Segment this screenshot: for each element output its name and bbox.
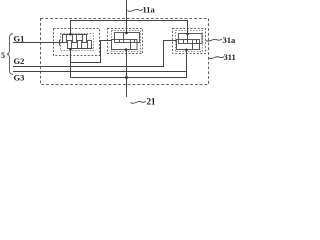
wire: bus B bottom with riser to cell 3 bottom — [71, 50, 187, 78]
curly brace for S group — [7, 34, 13, 75]
outer dashed box 311 — [41, 19, 209, 85]
cell 2 outer dashed box — [108, 29, 143, 54]
svg-text:311: 311 — [224, 52, 236, 62]
leader squiggle 21 — [131, 101, 147, 103]
cell 3 inner dashed box — [176, 31, 203, 52]
wire: cell1 bottom drop V1 — [70, 50, 72, 78]
node dot cell1 bottom — [69, 48, 72, 51]
svg-text:5: 5 — [1, 51, 5, 60]
node dot cell2 bottom — [125, 48, 128, 51]
svg-text:G1: G1 — [14, 34, 25, 44]
wire: G3 line — [13, 71, 187, 73]
transistor comb cell 2 — [112, 33, 140, 50]
svg-text:31a: 31a — [223, 35, 237, 45]
junction dot on bus B — [125, 76, 128, 79]
svg-text:21: 21 — [147, 97, 157, 107]
transistor comb cell 3 — [177, 34, 203, 50]
cell 3 outer dashed box 31a — [173, 29, 206, 54]
node dot cell1 top — [69, 33, 72, 36]
leader squiggle 31a — [206, 39, 222, 41]
wire: bus A with riser and stub to cell 2 left — [71, 41, 113, 63]
cell 1 outer dashed box — [54, 29, 100, 56]
svg-text:G3: G3 — [14, 73, 25, 83]
wire: G1 line — [13, 42, 60, 44]
wire: 21 vertical line — [126, 50, 128, 98]
leader squiggle 11a — [128, 9, 144, 11]
node dot cell3 top — [186, 33, 189, 36]
wire: 11a vertical line — [126, 0, 128, 33]
cell 1 inner dashed box — [61, 34, 94, 51]
svg-text:11a: 11a — [143, 5, 156, 15]
leader squiggle 311 — [209, 57, 224, 59]
transistor comb cell 1 — [60, 35, 93, 49]
wire: G2 line with riser and stub to cell 3 — [13, 41, 177, 67]
svg-text:G2: G2 — [14, 56, 25, 66]
cell 2 inner dashed box — [112, 31, 141, 52]
wire: top bus connecting cell1 and cell3 tops — [71, 21, 188, 35]
node dot cell2 top — [125, 32, 128, 35]
node dot cell3 bottom — [185, 49, 188, 52]
